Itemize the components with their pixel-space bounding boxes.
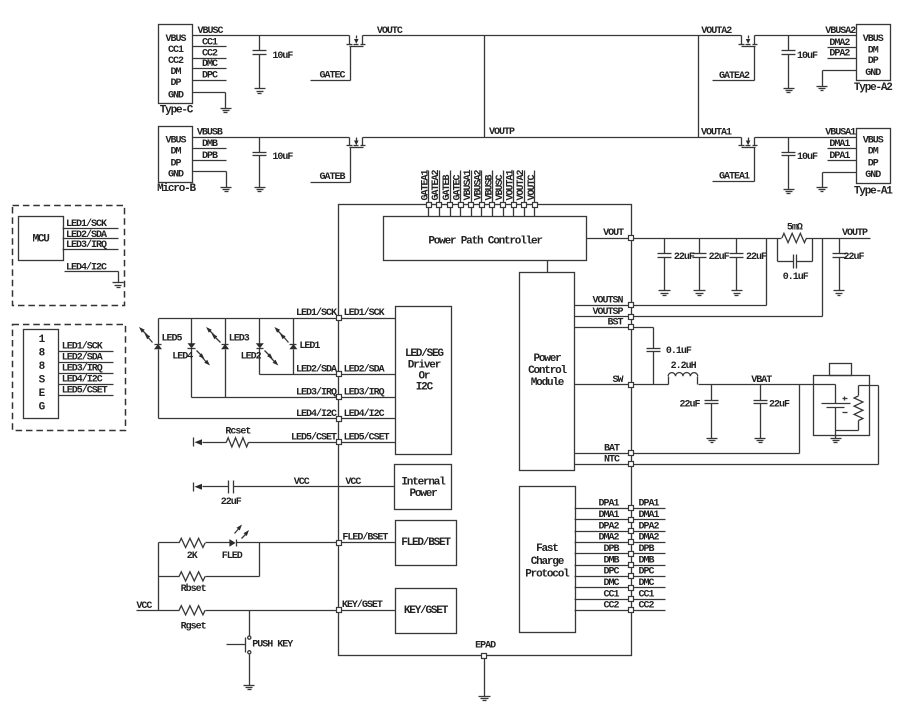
svg-text:DPA2: DPA2 <box>829 49 850 60</box>
svg-text:VOUT: VOUT <box>603 228 624 239</box>
svg-text:DP: DP <box>868 56 879 67</box>
svg-text:Type-A2: Type-A2 <box>854 82 892 94</box>
svg-text:VOUTP: VOUTP <box>842 228 868 239</box>
svg-text:LED5/CSET: LED5/CSET <box>344 432 390 444</box>
svg-text:DMA2: DMA2 <box>829 38 850 49</box>
svg-text:DPC: DPC <box>202 71 218 82</box>
svg-text:VOUTA2: VOUTA2 <box>701 26 732 37</box>
svg-text:VBUSC: VBUSC <box>198 26 224 37</box>
svg-text:VBUSC: VBUSC <box>495 174 506 200</box>
svg-text:Rgset: Rgset <box>181 621 207 632</box>
svg-text:GATEA1: GATEA1 <box>719 172 750 183</box>
svg-text:Rcset: Rcset <box>225 426 251 437</box>
svg-text:VBUS: VBUS <box>863 34 884 45</box>
svg-text:LED/SEG: LED/SEG <box>405 348 444 360</box>
svg-text:Micro-B: Micro-B <box>157 183 196 195</box>
svg-text:GATEB: GATEB <box>320 172 346 183</box>
svg-text:PUSH KEY: PUSH KEY <box>252 640 293 651</box>
svg-text:Rbset: Rbset <box>181 583 207 595</box>
svg-text:VBUS: VBUS <box>863 135 884 146</box>
svg-text:GATEA2: GATEA2 <box>719 71 750 82</box>
svg-text:LED2/SDA: LED2/SDA <box>62 351 103 363</box>
svg-text:LED2: LED2 <box>241 351 262 362</box>
svg-text:CC1: CC1 <box>168 45 184 56</box>
svg-text:Internal: Internal <box>401 477 446 489</box>
svg-text:BAT: BAT <box>604 443 620 454</box>
svg-text:10uF: 10uF <box>272 51 293 62</box>
svg-text:Charge: Charge <box>531 556 565 568</box>
svg-text:DMB: DMB <box>202 139 218 150</box>
svg-text:VOUTA1: VOUTA1 <box>506 169 517 200</box>
svg-text:LED1: LED1 <box>299 341 320 352</box>
svg-text:0.1uF: 0.1uF <box>666 346 692 357</box>
svg-text:2.2uH: 2.2uH <box>671 361 697 372</box>
svg-text:DMA1: DMA1 <box>829 139 850 150</box>
svg-text:LED4: LED4 <box>172 351 193 362</box>
svg-text:DMC: DMC <box>639 578 655 589</box>
svg-text:Power: Power <box>409 488 437 500</box>
svg-text:GND: GND <box>865 68 881 79</box>
svg-text:22uF: 22uF <box>709 252 730 263</box>
svg-text:I2C: I2C <box>416 381 434 393</box>
svg-text:LED2/SDA: LED2/SDA <box>296 364 337 376</box>
svg-text:LED5: LED5 <box>162 334 183 345</box>
svg-text:DMC: DMC <box>603 578 619 589</box>
svg-text:FLED/BSET: FLED/BSET <box>401 537 451 549</box>
svg-text:VBUSA1: VBUSA1 <box>463 169 474 200</box>
svg-text:LED5/CSET: LED5/CSET <box>291 432 337 444</box>
svg-text:CC1: CC1 <box>639 589 655 600</box>
svg-text:DM: DM <box>868 45 879 56</box>
svg-text:CC2: CC2 <box>202 48 218 59</box>
svg-text:LED1/SCK: LED1/SCK <box>66 218 107 230</box>
svg-text:Power: Power <box>533 353 561 365</box>
svg-text:GATEB: GATEB <box>442 174 453 200</box>
svg-text:VCC: VCC <box>294 477 310 488</box>
svg-text:EPAD: EPAD <box>475 640 496 651</box>
svg-text:VOUTP: VOUTP <box>489 127 515 138</box>
svg-text:22uF: 22uF <box>769 400 790 411</box>
svg-text:Module: Module <box>531 377 565 389</box>
svg-text:GATEC: GATEC <box>452 174 463 200</box>
svg-text:22uF: 22uF <box>746 252 767 263</box>
svg-text:LED3/IRQ: LED3/IRQ <box>344 386 385 398</box>
svg-text:DP: DP <box>868 159 879 170</box>
svg-text:SW: SW <box>612 375 623 386</box>
svg-text:10uF: 10uF <box>272 152 293 163</box>
svg-text:DMA2: DMA2 <box>598 533 619 544</box>
svg-text:DP: DP <box>170 159 181 170</box>
svg-text:LED4/I2C: LED4/I2C <box>344 408 385 420</box>
svg-text:LED3/IRQ: LED3/IRQ <box>296 386 337 398</box>
svg-text:KEY/GSET: KEY/GSET <box>342 599 383 611</box>
svg-text:DPC: DPC <box>603 567 619 578</box>
svg-text:DMB: DMB <box>639 555 655 566</box>
svg-text:10uF: 10uF <box>797 152 818 163</box>
svg-text:GATEC: GATEC <box>320 70 346 81</box>
svg-text:5mΩ: 5mΩ <box>787 223 803 234</box>
svg-text:GND: GND <box>168 90 184 101</box>
svg-text:VBUSA2: VBUSA2 <box>474 169 485 200</box>
svg-text:VOUTA2: VOUTA2 <box>516 169 527 200</box>
svg-text:LED4/I2C: LED4/I2C <box>296 408 337 420</box>
svg-text:BST: BST <box>607 317 623 328</box>
svg-text:VOUTC: VOUTC <box>377 26 403 37</box>
svg-text:DPA2: DPA2 <box>639 521 660 532</box>
svg-text:VOUTSN: VOUTSN <box>592 295 623 306</box>
svg-text:Control: Control <box>528 365 567 377</box>
svg-text:VBUSB: VBUSB <box>197 128 223 139</box>
svg-text:VCC: VCC <box>345 477 361 488</box>
svg-text:LED3: LED3 <box>229 334 250 345</box>
svg-text:22uF: 22uF <box>844 252 865 263</box>
svg-text:LED5/CSET: LED5/CSET <box>62 385 108 397</box>
svg-text:VOUTSP: VOUTSP <box>592 307 623 318</box>
svg-text:CC1: CC1 <box>603 589 619 600</box>
svg-text:DPA1: DPA1 <box>598 499 619 510</box>
svg-text:DPB: DPB <box>202 151 218 162</box>
svg-text:GND: GND <box>168 169 184 180</box>
svg-text:DPC: DPC <box>639 567 655 578</box>
svg-text:LED2/SDA: LED2/SDA <box>66 229 107 241</box>
svg-text:Type-A1: Type-A1 <box>854 186 893 198</box>
svg-text:VOUTC: VOUTC <box>527 174 538 200</box>
svg-text:VBAT: VBAT <box>751 375 772 386</box>
svg-text:GATEA2: GATEA2 <box>431 169 442 200</box>
svg-text:DMC: DMC <box>202 59 218 70</box>
svg-text:VBUSB: VBUSB <box>484 174 495 200</box>
svg-text:NTC: NTC <box>604 454 620 465</box>
svg-text:0.1uF: 0.1uF <box>783 272 809 283</box>
svg-text:LED3/IRQ: LED3/IRQ <box>66 239 107 251</box>
svg-text:VBUS: VBUS <box>165 135 186 146</box>
svg-text:VOUTA1: VOUTA1 <box>701 128 732 139</box>
svg-text:CC2: CC2 <box>603 601 619 612</box>
svg-text:DMB: DMB <box>603 555 619 566</box>
svg-text:Type-C: Type-C <box>160 105 194 117</box>
svg-text:22uF: 22uF <box>221 497 242 508</box>
svg-text:DMA2: DMA2 <box>639 533 660 544</box>
svg-text:DPB: DPB <box>603 544 619 555</box>
svg-text:CC2: CC2 <box>168 56 184 67</box>
svg-text:22uF: 22uF <box>674 252 695 263</box>
svg-text:Fast: Fast <box>536 543 558 555</box>
svg-text:FLED/BSET: FLED/BSET <box>342 531 388 543</box>
svg-text:VBUS: VBUS <box>165 34 186 45</box>
svg-text:LED1/SCK: LED1/SCK <box>344 307 385 319</box>
svg-text:FLED: FLED <box>222 551 243 562</box>
svg-text:LED4/I2C: LED4/I2C <box>66 261 107 273</box>
svg-text:DPA1: DPA1 <box>829 151 850 162</box>
svg-text:LED1/SCK: LED1/SCK <box>62 340 103 352</box>
svg-text:VBUSA1: VBUSA1 <box>825 128 856 139</box>
svg-text:Protocol: Protocol <box>525 569 570 581</box>
svg-text:DMA1: DMA1 <box>598 510 619 521</box>
svg-text:LED1/SCK: LED1/SCK <box>296 307 337 319</box>
svg-text:CC2: CC2 <box>639 601 655 612</box>
svg-text:DM: DM <box>868 146 879 157</box>
svg-text:10uF: 10uF <box>797 51 818 62</box>
svg-text:DP: DP <box>170 78 181 89</box>
svg-text:22uF: 22uF <box>679 400 700 411</box>
svg-text:KEY/GSET: KEY/GSET <box>404 605 449 617</box>
svg-text:LED4/I2C: LED4/I2C <box>62 374 103 386</box>
svg-text:VBUSA2: VBUSA2 <box>825 26 856 37</box>
svg-text:VCC: VCC <box>136 601 152 612</box>
svg-text:2K: 2K <box>187 551 198 562</box>
svg-text:DPB: DPB <box>639 544 655 555</box>
svg-text:DPA2: DPA2 <box>598 521 619 532</box>
svg-text:LED3/IRQ: LED3/IRQ <box>62 363 103 375</box>
svg-text:DM: DM <box>170 67 181 78</box>
svg-text:DM: DM <box>170 146 181 157</box>
svg-text:GND: GND <box>865 170 881 181</box>
svg-text:Power Path Controller: Power Path Controller <box>428 235 542 247</box>
svg-text:MCU: MCU <box>32 234 49 246</box>
svg-text:CC1: CC1 <box>202 37 218 48</box>
svg-text:GATEA1: GATEA1 <box>421 169 432 200</box>
svg-text:DPA1: DPA1 <box>639 499 660 510</box>
svg-text:DMA1: DMA1 <box>639 510 660 521</box>
svg-text:LED2/SDA: LED2/SDA <box>344 364 385 376</box>
